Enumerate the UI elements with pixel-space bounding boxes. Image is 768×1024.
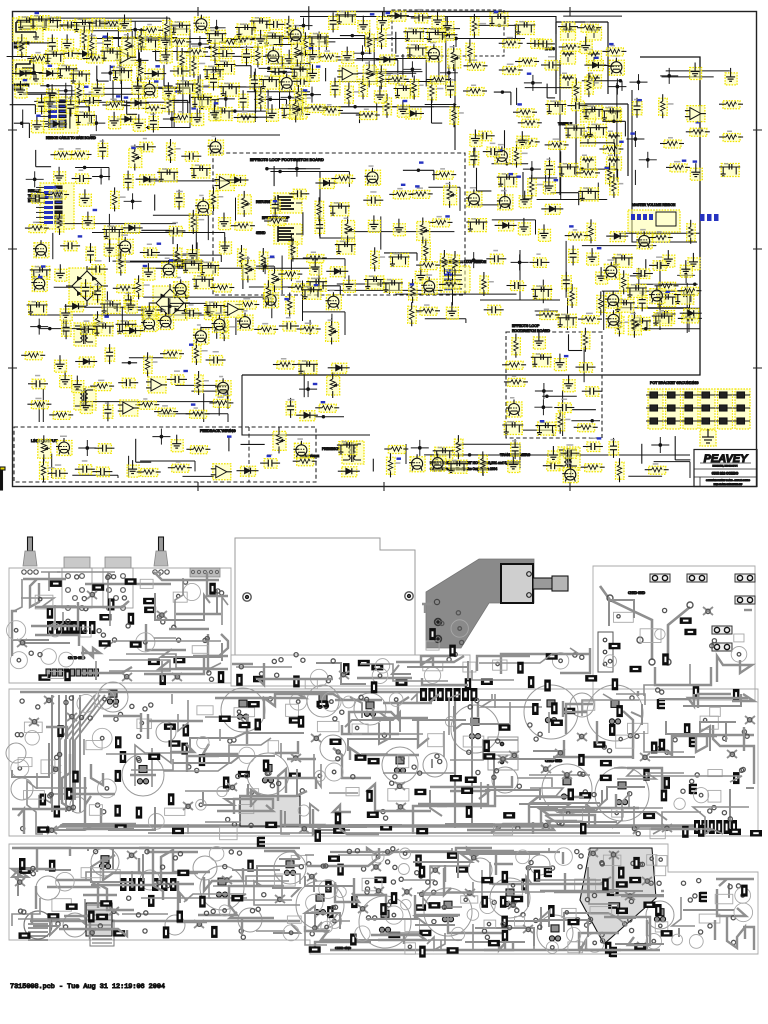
component cluster [600,107,621,121]
component cluster [170,21,191,35]
trace [423,890,462,909]
component outline [672,934,683,945]
resistor R177 [293,458,317,466]
ground [690,63,702,80]
component body [148,659,160,666]
component outline [283,925,299,941]
wire [113,260,204,262]
trace [20,642,70,644]
resistor R65 [610,174,623,198]
trace [362,733,423,735]
trace [467,821,577,830]
component outline [239,747,255,763]
trace [215,694,305,698]
pad [592,793,596,797]
resistor R39 [428,79,444,103]
diode D25 [338,467,360,477]
tube V18 [325,290,341,310]
svg-text:SCHEMATIC PREAMP BOARD - 6505: SCHEMATIC PREAMP BOARD - 6505 212 COMBO [706,479,750,482]
pad [628,792,632,796]
trace [655,667,711,685]
star pad cluster [727,750,737,758]
trace [219,729,221,741]
trace [329,792,358,794]
tube V17 [263,290,279,308]
pad [492,900,496,904]
capacitor C4 [48,34,58,54]
component outline [494,824,513,835]
pad [418,771,422,775]
resistor R160 [479,451,488,475]
capacitor can [570,693,594,717]
resistor R105 [440,250,453,274]
resistor R111 [615,313,629,337]
resistor R40 [294,85,308,109]
ground [342,47,354,64]
component outline [461,896,478,903]
wire [344,231,454,233]
wire [339,106,460,108]
trace [256,930,285,932]
trace [437,788,495,806]
ground [415,266,427,283]
trace [27,781,87,834]
trace [517,778,552,787]
resistor R171 [38,435,51,461]
trace [85,583,171,585]
capacitor C31 [86,243,96,263]
trace [36,773,38,789]
component body [255,719,262,731]
resistor R60 [515,58,539,66]
net label [267,455,272,457]
trace [580,940,621,950]
svg-text:EFFECTS LOOP FOOTSWITCH BOARD: EFFECTS LOOP FOOTSWITCH BOARD [250,157,324,162]
pad [628,734,632,738]
tube V29 [56,436,72,456]
trace [112,849,114,869]
trace [66,828,87,830]
component body [609,643,621,650]
component body [38,674,50,681]
wire [419,28,460,30]
wire [376,103,378,120]
resistor R97 [303,252,327,263]
component outline [426,641,439,650]
trace [509,702,511,724]
component cluster [215,61,236,75]
pad [262,893,266,897]
component cluster [73,19,94,33]
white relay boxes [488,737,518,752]
resistor R138 [451,251,464,275]
pad [391,880,395,884]
net label [157,243,162,245]
wire left bus [30,314,230,316]
component body [664,777,671,789]
component body [113,930,125,937]
ground [82,212,94,229]
wire [476,24,515,26]
net label [313,383,318,385]
trace [91,764,103,785]
component body [337,864,344,876]
diode D12 [584,61,606,71]
trace [600,787,645,805]
pad [137,734,141,738]
capacitor can [140,870,160,890]
wire [281,256,283,295]
trace [696,735,754,752]
trace [161,850,210,884]
component outline [287,916,301,923]
wire [55,223,176,225]
pad [440,621,444,625]
pad [657,881,661,885]
wire [182,64,184,117]
trace [472,924,474,950]
capacitor can [320,735,346,761]
component outline [41,760,55,774]
component outline [708,770,722,777]
resistor R29 [298,88,311,112]
component outline [239,805,254,814]
ribbon connector [40,97,78,133]
component cluster [582,105,603,119]
capacitor C32 [181,152,201,162]
component outline [628,723,648,733]
wire [7,57,34,71]
bottom strip bus [20,847,300,849]
net label [52,186,57,188]
component outline [515,916,525,926]
component body [211,926,218,938]
trace [151,748,153,787]
tone stack ladder [556,22,608,94]
capacitor C26 [527,39,547,49]
capacitor can [238,908,262,932]
component body [148,895,155,907]
component outline [137,719,152,729]
tube V30 [605,291,621,309]
net label [183,370,188,372]
trace [585,794,639,808]
star pad cluster [402,888,412,896]
wire tone return [632,90,697,242]
wire [547,84,555,98]
component cluster [403,28,424,42]
tube V10 [208,135,224,155]
component outline [92,728,112,748]
capacitor C7 [60,21,80,31]
pad [708,924,712,928]
pad [628,918,632,922]
wire [119,46,121,76]
star pad cluster [541,765,551,773]
pot ground lug column [733,389,750,429]
trace [540,890,590,892]
svg-text:MASTER VOLUME RIBBON: MASTER VOLUME RIBBON [632,203,676,207]
wire [583,347,585,382]
trace [548,848,550,852]
component cluster [329,202,350,216]
component outline [165,808,185,815]
component outline [25,731,39,745]
ground [60,371,72,388]
resistor R32 [317,50,341,61]
diode D5 [74,49,96,59]
pad [447,658,451,662]
wire [52,233,54,259]
resistor R80 [210,187,224,211]
capacitor can [451,705,499,753]
trace [232,869,280,871]
component body [733,689,740,701]
capacitor can [382,747,418,783]
component cluster [406,44,427,58]
ground [446,302,458,319]
ground [432,11,444,28]
wire [666,70,730,72]
component body [447,852,459,859]
component outline [640,629,661,643]
pad [177,638,181,642]
wire [309,320,311,335]
net label [155,65,160,67]
panel potentiometer [22,537,38,574]
wire [106,291,108,317]
trace [342,725,399,734]
component body [358,660,370,667]
ground [519,191,531,208]
wire [143,180,230,182]
pad [71,805,75,809]
component body [130,641,142,648]
transistor body [658,699,665,709]
copper pour [240,796,300,826]
component outline [372,668,388,684]
component outline [192,646,208,654]
trace [392,665,411,674]
ground [533,332,545,349]
pad [712,806,716,810]
star pad cluster [609,851,619,859]
component body [416,828,428,835]
component outline [274,874,295,886]
transistor body [258,837,265,847]
wire [619,232,699,234]
wire [582,80,622,82]
capacitor C37 [136,138,156,152]
pad [49,793,53,797]
trace [430,776,512,787]
trace [178,700,188,731]
capacitor C21 [329,12,339,32]
component body [500,896,507,908]
pad [468,705,472,709]
trace [12,898,40,926]
capacitor can [542,764,592,814]
component cluster [259,76,280,90]
resistor R155 [90,380,114,391]
diode D14 [136,175,158,185]
capacitor C76 [475,131,495,141]
component outline [197,706,213,715]
component body [593,741,605,748]
node [191,36,209,52]
component body [511,896,523,903]
trace [98,884,134,910]
diode D28 [237,466,259,476]
capacitor can [63,913,87,937]
net label [169,259,174,261]
component body [579,792,591,799]
resistor R161 [384,446,408,454]
svg-text:SEND: SEND [256,231,266,235]
component outline [463,736,484,747]
pad [333,905,337,909]
component cluster [74,111,95,125]
resistor R146 [186,407,210,418]
tube V14 [497,190,513,210]
net label [630,132,635,134]
capacitor can [468,858,492,882]
wire [477,168,492,191]
wire [567,298,569,330]
capacitor C48 [81,279,91,299]
wire [565,241,567,298]
tube V16 [173,277,189,297]
capacitor can [98,682,128,712]
resistor R62 [576,169,600,177]
component body [143,598,155,605]
component body [563,708,575,715]
capacitor C15 [209,71,219,91]
trace [122,913,168,915]
trace [646,920,648,936]
resistor R46 [319,104,343,115]
component body [461,788,473,795]
pad [333,717,337,721]
resistor R44 [291,40,304,66]
trace [126,654,221,668]
trace [714,920,716,940]
component body [659,739,666,751]
node [126,22,144,38]
star pad cluster [508,901,518,909]
component outline [734,634,744,642]
bottom bus trace [30,920,300,923]
fuse clip [687,574,707,582]
component outline [398,755,409,768]
component outline [451,620,468,637]
trace [539,911,588,937]
component cluster [205,30,226,44]
node [30,319,48,335]
star pad cluster [577,733,587,741]
wire [372,459,374,472]
net label [270,256,275,258]
trace [698,694,731,708]
input jack J [13,18,43,42]
trace [644,731,684,752]
pad [442,905,446,909]
wire [432,99,443,124]
trace [146,624,186,650]
capacitor C72 [75,460,95,474]
wire tone bus [559,60,561,195]
node [256,258,274,274]
capacitor can [200,866,244,910]
trace [95,661,97,674]
pad [144,911,148,915]
trace [422,678,468,685]
wire [602,290,690,292]
vertical trace bundle [52,695,80,812]
resistor R36 [359,75,368,99]
resistor R71 [602,45,626,56]
right board pads [649,659,655,665]
node [87,115,105,131]
wire [36,150,51,167]
trace [203,744,238,754]
resistor R42 [450,103,464,127]
diode D26 [680,309,702,319]
PCB blank module outline [235,538,415,655]
wire [129,357,176,359]
capacitor C69 [576,363,596,373]
wire bottom row [455,454,690,456]
resistor R135 [210,284,234,292]
trace [532,803,667,820]
resistor R10 [83,55,107,63]
panel potentiometer [153,537,169,574]
component cluster [116,320,137,334]
star pad cluster [371,863,381,871]
capacitor C45 [638,291,648,311]
copper pour [580,848,656,944]
wire lower bus [242,375,370,435]
capacitor C64 [28,375,48,389]
ground [171,435,183,452]
resistor R22 [219,39,243,47]
trace [180,893,187,903]
component body [108,598,115,610]
wire [23,92,56,94]
svg-text:RIBBON CABLE TO MAIN BOARD: RIBBON CABLE TO MAIN BOARD [46,136,97,140]
trace [64,916,96,936]
trace [248,769,297,796]
component body [532,703,539,715]
component body [651,742,658,754]
node [660,68,678,84]
component body [368,758,380,765]
component cluster [93,322,114,336]
trace [479,648,579,663]
component outline [493,660,507,670]
star pad cluster [625,892,635,900]
component body [419,946,426,958]
resistor R145 [21,352,45,360]
schematic sheet border [13,12,757,487]
star pad cluster [465,889,475,897]
component body [466,806,473,818]
resistor R169 [581,328,590,352]
component outline [136,633,155,652]
trace [187,824,189,834]
resistor R110 [315,197,324,221]
node [293,47,311,63]
